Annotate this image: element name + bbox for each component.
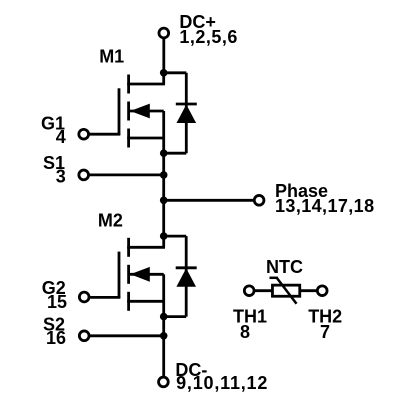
svg-text:9,10,11,12: 9,10,11,12	[176, 373, 268, 393]
svg-text:3: 3	[56, 167, 66, 187]
svg-text:M1: M1	[99, 47, 124, 67]
svg-text:8: 8	[240, 322, 250, 342]
svg-text:M2: M2	[98, 211, 123, 231]
svg-text:7: 7	[320, 322, 330, 342]
svg-text:NTC: NTC	[266, 257, 303, 277]
svg-text:13,14,17,18: 13,14,17,18	[275, 196, 375, 216]
svg-text:1,2,5,6: 1,2,5,6	[179, 27, 238, 47]
svg-text:16: 16	[46, 328, 66, 348]
svg-text:4: 4	[56, 127, 66, 147]
svg-text:15: 15	[47, 292, 67, 312]
